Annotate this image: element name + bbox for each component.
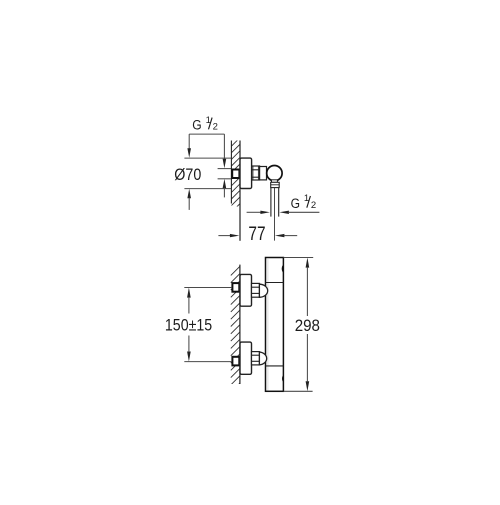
svg-text:298: 298 xyxy=(295,316,320,335)
handle mark top xyxy=(282,265,284,273)
escutcheon (side view) xyxy=(240,158,252,188)
lower dome connector xyxy=(259,352,266,365)
dimension G1/2 top: label xyxy=(192,115,218,133)
dimension G1/2 (hose) label xyxy=(291,193,317,211)
thermostat body (plan) xyxy=(266,258,284,392)
svg-text:77: 77 xyxy=(248,224,265,245)
lower hex nut xyxy=(252,352,260,365)
lower escutcheon xyxy=(240,342,252,374)
G1/2 top dimension line xyxy=(189,133,224,135)
G1/2 thread lower arrow xyxy=(223,179,227,189)
svg-text:150±15: 150±15 xyxy=(165,316,212,335)
wall line (bottom drawing) xyxy=(239,265,241,384)
dimension 77 xyxy=(218,235,230,237)
upper 150 extension line xyxy=(184,287,231,289)
wall hatch (top drawing) xyxy=(231,138,240,213)
svg-text:2: 2 xyxy=(213,122,218,133)
body bottom section line xyxy=(266,365,284,367)
upper escutcheon xyxy=(240,274,252,306)
wall surface line xyxy=(239,141,241,241)
right drop line + arrow to fitting xyxy=(223,134,225,159)
valve body circle xyxy=(267,166,282,181)
Ø70 extension lines xyxy=(184,157,231,159)
Ø70 lower arrow xyxy=(187,189,191,199)
connector block xyxy=(260,167,267,180)
handle mark bottom xyxy=(282,375,284,382)
upper wall union fitting xyxy=(232,283,239,292)
hose xyxy=(270,188,272,217)
wall hatch (bottom drawing) xyxy=(231,266,240,392)
svg-text:Ø70: Ø70 xyxy=(174,165,201,184)
collar xyxy=(271,182,280,187)
neck below circle xyxy=(272,180,278,183)
hex nut (side view) xyxy=(252,166,260,180)
body top section line xyxy=(266,282,284,284)
upper hex nut xyxy=(252,283,260,297)
hose centre extension line xyxy=(274,188,276,241)
dimension 298 xyxy=(284,257,314,259)
left drop line + arrow (also Ø70 upper arrow) xyxy=(188,134,190,149)
wall union fitting xyxy=(232,170,239,179)
lower wall union fitting xyxy=(232,357,239,366)
body inner profile line (faint) xyxy=(267,258,269,390)
svg-text:G: G xyxy=(192,117,201,132)
svg-text:G: G xyxy=(291,196,300,211)
G1/2 thread extension lines xyxy=(218,168,232,170)
upper dome connector xyxy=(259,284,267,297)
svg-text:2: 2 xyxy=(311,200,316,211)
G1/2 hose dimension arrows xyxy=(247,211,261,213)
dimension 150±15 xyxy=(187,288,191,298)
wall left line xyxy=(230,141,232,204)
lower 150 extension line xyxy=(184,361,231,363)
